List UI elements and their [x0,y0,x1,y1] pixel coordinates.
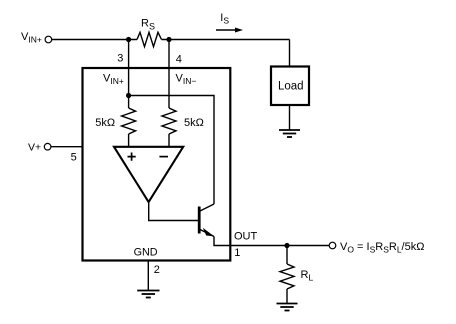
pin 3 wire [128,40,130,109]
resistor RS [137,32,162,46]
terminal VIN+ circle [45,36,52,43]
transistor Q1 emitter [200,230,214,237]
wire 5k left to opamp [128,134,130,147]
wire 5k right to opamp [168,134,170,147]
terminal V+ circle [44,143,51,150]
op-amp U1 [114,147,183,202]
ground below pin 2 [137,291,159,298]
pin 5 wire [51,146,83,148]
terminal VO circle [329,242,336,249]
svg-text:OUT: OUT [234,231,258,243]
node junction dot internal [126,93,131,98]
svg-text:3: 3 [117,53,123,65]
ground below RL [277,304,298,311]
svg-text:1: 1 [234,247,240,259]
pin 4 wire [168,40,170,109]
pin 2 wire [147,260,149,290]
svg-text:GND: GND [134,246,158,258]
wire internal horizontal to collector branch [129,96,214,205]
current IS arrow [216,29,236,31]
wire emitter to OUT [214,237,231,246]
svg-text:5kΩ: 5kΩ [95,117,115,129]
svg-text:5: 5 [71,152,77,164]
wire vertical to Load [289,40,291,67]
node junction dot pin4 top [166,37,171,42]
wire Load to ground [289,105,291,130]
svg-text:2: 2 [154,264,160,276]
svg-text:V+: V+ [28,141,41,153]
node junction dot pin3 top [126,37,131,42]
resistor RL [286,246,288,265]
transistor Q1 base bar [198,207,201,234]
wire RL to ground [286,289,288,303]
svg-text:4: 4 [176,54,182,66]
resistor 5k right [162,108,176,134]
ground below Load [279,130,300,137]
wire OUT to VO terminal [231,245,329,247]
IC box [83,68,231,261]
transistor Q1 collector [200,204,214,211]
node junction dot OUT [284,243,289,248]
svg-text:5kΩ: 5kΩ [184,117,204,129]
wire opamp output to transistor base [149,202,198,221]
wire top from RS to load corner [162,39,290,41]
Load box [271,67,309,106]
resistor 5k left [122,108,136,134]
svg-text:Load: Load [278,81,304,93]
wire top from VIN+ terminal to RS [52,39,137,41]
